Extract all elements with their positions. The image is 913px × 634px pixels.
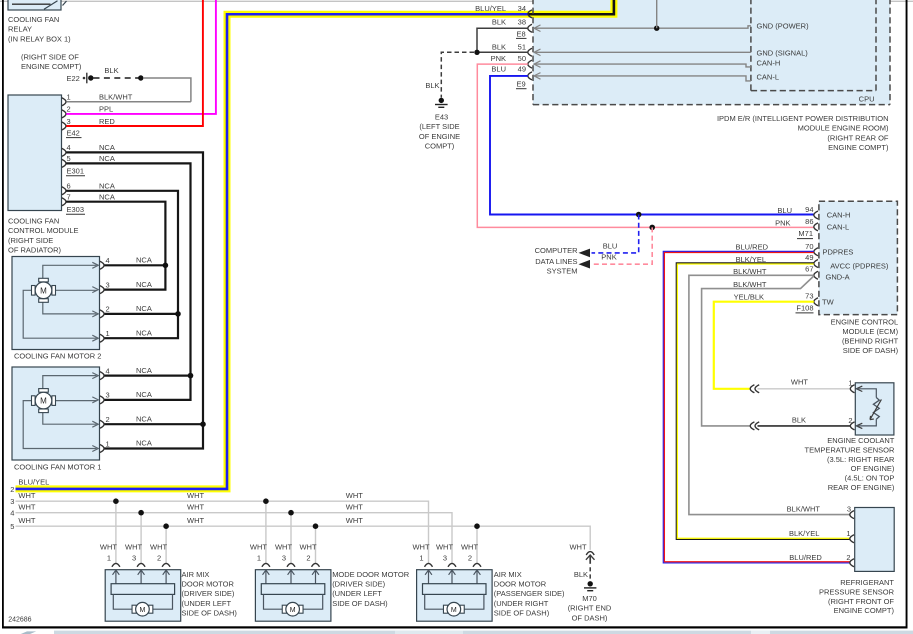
svg-text:(UNDER LEFT: (UNDER LEFT (332, 589, 382, 598)
svg-text:SIDE OF DASH): SIDE OF DASH) (332, 599, 388, 608)
wire PNK dashed to computer data lines (592, 227, 653, 264)
svg-text:PDPRES: PDPRES (823, 248, 854, 257)
junction dot motor2 pin4 (163, 263, 169, 269)
wire BLK/YEL pin49 to refrigerant sensor pin1 black line (676, 263, 850, 540)
svg-text:COOLING FAN MOTOR 1: COOLING FAN MOTOR 1 (14, 463, 101, 472)
wire BLU/YEL black core inside IPDM (528, 0, 614, 14)
wire BLK dashed to ground E43 (441, 52, 474, 97)
svg-text:(UNDER RIGHT: (UNDER RIGHT (494, 599, 549, 608)
svg-text:BLK: BLK (104, 66, 118, 75)
svg-text:BLK: BLK (492, 43, 506, 52)
svg-text:DOOR MOTOR: DOOR MOTOR (494, 580, 547, 589)
refrigerant sensor pin arcs (850, 511, 854, 567)
svg-text:NCA: NCA (136, 280, 152, 289)
COOLING FAN MOTOR 2 box (12, 257, 100, 350)
door motor AIR MIX pin arcs (425, 563, 482, 566)
svg-text:COOLING FAN: COOLING FAN (8, 15, 59, 24)
top gray edge line (0, 1, 913, 2)
IPDM pin arcs (528, 10, 532, 80)
door motor AIR MIX pin labels WHT (100, 542, 168, 551)
svg-text:3: 3 (67, 117, 71, 126)
svg-text:BLK/WHT: BLK/WHT (733, 267, 767, 276)
ECM box fill (819, 201, 898, 314)
wire BLK pin51 to splice (477, 51, 528, 53)
door motor AIR MIX potentiometer bar (111, 584, 175, 595)
svg-text:M: M (140, 607, 146, 614)
svg-text:CAN-H: CAN-H (827, 211, 851, 220)
svg-text:WHT: WHT (187, 502, 204, 511)
svg-text:NCA: NCA (136, 366, 152, 375)
junction dot on GND POWER wire (654, 26, 659, 31)
junction dot motor2 pin2 (175, 311, 181, 317)
svg-text:3: 3 (106, 391, 110, 400)
door motor AIR MIX box (105, 570, 181, 622)
ECM dashed border (819, 201, 898, 314)
svg-text:242686: 242686 (8, 616, 31, 623)
svg-text:BLK: BLK (425, 81, 439, 90)
svg-text:AVCC (PDPRES): AVCC (PDPRES) (830, 261, 889, 270)
svg-text:3: 3 (10, 497, 14, 506)
wire NCA pin6 to fan motor2 pins 2/1 (66, 191, 178, 338)
svg-text:ENGINE COMPT): ENGINE COMPT) (828, 143, 889, 152)
svg-text:WHT: WHT (125, 542, 142, 551)
relay label text (8, 15, 82, 71)
svg-text:WHT: WHT (346, 491, 363, 500)
svg-text:ENGINE COOLANT: ENGINE COOLANT (827, 436, 895, 445)
ECM wire labels (733, 206, 792, 302)
relay internal line (12, 3, 51, 5)
svg-text:CONTROL MODULE: CONTROL MODULE (8, 226, 79, 235)
svg-text:50: 50 (518, 54, 526, 63)
arrow to computer data lines BLU (579, 249, 591, 258)
wire labels at module pins (99, 93, 133, 202)
module label text (8, 217, 79, 255)
svg-text:CAN-H: CAN-H (757, 59, 781, 68)
svg-text:E42: E42 (67, 128, 80, 137)
svg-text:WHT: WHT (791, 378, 808, 387)
wire BLU/YEL blue core (16, 14, 530, 489)
svg-text:PNK: PNK (601, 253, 616, 262)
wire BLK solid to corner, down to pin 1 (143, 78, 191, 102)
coolant sensor pin arcs (850, 385, 854, 430)
door motor MODE DOOR MOTOR motor symbol (264, 594, 323, 616)
COOLING FAN MOTOR 1 internal wires (23, 373, 98, 452)
inline connector on M70 drop (586, 552, 594, 555)
COOLING FAN MOTOR 1 NCA labels (136, 366, 152, 448)
svg-text:M: M (451, 607, 457, 614)
svg-text:2: 2 (106, 415, 110, 424)
svg-text:2: 2 (157, 554, 161, 563)
svg-text:2: 2 (468, 554, 472, 563)
svg-text:2: 2 (106, 305, 110, 314)
svg-text:WHT: WHT (412, 542, 429, 551)
svg-text:4: 4 (106, 256, 110, 265)
svg-text:GND-A: GND-A (826, 272, 850, 281)
WHT labels on bus (18, 491, 363, 525)
door motor MODE DOOR MOTOR internal arrows (263, 570, 319, 584)
svg-text:WHT: WHT (18, 516, 35, 525)
svg-text:(IN RELAY BOX 1): (IN RELAY BOX 1) (8, 34, 71, 43)
svg-text:(UNDER LEFT: (UNDER LEFT (182, 599, 232, 608)
door motor AIR MIX internal arrows (425, 570, 480, 584)
IPDM label text (717, 114, 889, 152)
arrow to computer data lines PNK (579, 260, 591, 269)
svg-text:PNK: PNK (491, 54, 506, 63)
svg-text:(BEHIND RIGHT: (BEHIND RIGHT (842, 337, 899, 346)
door motor MODE DOOR MOTOR pin numbers 1 3 2 (257, 554, 311, 563)
wire WHT bus line 4 (16, 513, 453, 564)
svg-text:M: M (290, 607, 296, 614)
door motor MODE DOOR MOTOR pin arcs (262, 563, 320, 566)
wire BLK pin38 to splice (477, 28, 528, 52)
COOLING FAN MOTOR 1 pin numbers 4 3 2 1 (106, 366, 110, 448)
svg-text:NCA: NCA (136, 439, 152, 448)
wire BLU dashed to computer data lines (592, 215, 639, 253)
thermistor symbol (856, 389, 881, 426)
svg-text:F108: F108 (796, 304, 813, 313)
ground E43 label text (419, 113, 460, 151)
wire YEL/BLK pin73 to coolant sensor pin1 (714, 302, 814, 389)
module pin arcs (62, 98, 66, 206)
COOLING FAN MOTOR 1 motor symbol M (32, 389, 56, 413)
svg-text:70: 70 (805, 242, 813, 251)
svg-text:E22: E22 (67, 74, 80, 83)
COOLING FAN MOTOR 2 motor symbol M (32, 278, 56, 302)
svg-text:(RIGHT REAR OF: (RIGHT REAR OF (827, 133, 889, 142)
door motor AIR MIX label text (182, 570, 238, 618)
cooling fan control module box (8, 95, 62, 211)
COOLING FAN MOTOR 2 NCA labels (136, 256, 152, 338)
svg-text:1: 1 (419, 554, 423, 563)
svg-text:1: 1 (106, 439, 110, 448)
wire NCA pin7 to fan motor2 pins 4/3 (66, 202, 165, 290)
svg-text:WHT: WHT (346, 502, 363, 511)
relay K1 COOLING FAN RELAY box (clipped at top) (8, 0, 61, 10)
ground M70 symbol (584, 581, 596, 591)
svg-text:2: 2 (306, 554, 310, 563)
arrow up into M70 connector (586, 555, 595, 560)
door motor MODE DOOR MOTOR label text (332, 570, 410, 608)
svg-text:34: 34 (518, 4, 526, 13)
wire WHT drops to door motors (116, 501, 477, 563)
svg-text:AIR MIX: AIR MIX (182, 570, 210, 579)
svg-text:SIDE OF DASH): SIDE OF DASH) (843, 346, 899, 355)
svg-text:MODULE ENGINE ROOM): MODULE ENGINE ROOM) (798, 124, 889, 133)
svg-text:BLK: BLK (574, 570, 588, 579)
wire PNK pin50 to ECM pin86 (477, 64, 814, 227)
svg-text:COOLING FAN MOTOR 2: COOLING FAN MOTOR 2 (14, 351, 101, 360)
wire BLU pin49 to ECM pin94 (490, 76, 814, 215)
module pin numbers 1-7 (67, 93, 71, 202)
svg-text:4: 4 (67, 143, 71, 152)
svg-text:PPL: PPL (99, 105, 113, 114)
svg-text:ENGINE COMPT): ENGINE COMPT) (834, 606, 895, 615)
wire BLK to coolant sensor pin2 (758, 425, 851, 427)
svg-text:WHT: WHT (275, 542, 292, 551)
svg-text:(PASSENGER SIDE): (PASSENGER SIDE) (494, 589, 565, 598)
ground E43 symbol (435, 98, 448, 108)
wire BLK/WHT pin67 to refrigerant sensor pin3 (689, 275, 850, 514)
svg-text:YEL/BLK: YEL/BLK (734, 293, 764, 302)
svg-text:67: 67 (805, 264, 813, 273)
svg-text:ENGINE CONTROL: ENGINE CONTROL (831, 317, 899, 326)
svg-text:CAN-L: CAN-L (757, 72, 780, 81)
svg-text:OF ENGINE: OF ENGINE (419, 132, 460, 141)
svg-text:BLK: BLK (492, 18, 506, 27)
svg-text:GND (POWER): GND (POWER) (757, 22, 810, 31)
svg-text:3: 3 (132, 554, 136, 563)
svg-text:NCA: NCA (136, 256, 152, 265)
svg-text:NCA: NCA (136, 390, 152, 399)
connector E22 symbol (83, 73, 87, 84)
svg-text:WHT: WHT (436, 542, 453, 551)
svg-text:NCA: NCA (99, 182, 115, 191)
COOLING FAN MOTOR 2 internal wires (23, 262, 98, 341)
svg-text:IPDM E/R (INTELLIGENT POWER DI: IPDM E/R (INTELLIGENT POWER DISTRIBUTION (717, 114, 889, 123)
wire BLK/WHT second to coolant sensor pin2 (702, 276, 814, 426)
COOLING FAN MOTOR 2 pin arcs (100, 261, 104, 342)
svg-text:1: 1 (106, 329, 110, 338)
svg-text:WHT: WHT (187, 491, 204, 500)
svg-text:REFRIGERANT: REFRIGERANT (840, 578, 894, 587)
svg-text:WHT: WHT (250, 542, 267, 551)
svg-text:4: 4 (106, 366, 110, 375)
door motor MODE DOOR MOTOR potentiometer bar (261, 584, 325, 595)
CPU pin labels (757, 22, 810, 82)
door motor AIR MIX box (417, 570, 493, 622)
bottom taskbar strip (54, 631, 913, 634)
wire BLK/YEL yellow line (677, 264, 849, 538)
svg-text:BLK: BLK (792, 416, 806, 425)
svg-text:RELAY: RELAY (8, 25, 32, 34)
svg-text:(LEFT SIDE: (LEFT SIDE (419, 122, 459, 131)
IPDM pin wire labels (475, 4, 506, 74)
svg-text:BLU/RED: BLU/RED (735, 242, 768, 251)
diagram bottom border (2, 626, 908, 628)
door motor AIR MIX pin labels WHT (412, 542, 478, 551)
svg-text:AIR MIX: AIR MIX (494, 570, 522, 579)
svg-text:2: 2 (10, 485, 14, 494)
ECM internal pin labels (822, 211, 889, 307)
svg-text:5: 5 (10, 522, 14, 531)
svg-text:ENGINE COMPT): ENGINE COMPT) (21, 62, 82, 71)
wire WHT to coolant sensor pin1 (758, 388, 851, 390)
wire NCA pin5 to fan motor1 pins 4/3 (66, 163, 190, 400)
svg-text:1: 1 (846, 529, 850, 538)
svg-text:(RIGHT SIDE OF: (RIGHT SIDE OF (21, 53, 79, 62)
line numbers 3 4 5 (10, 497, 14, 531)
wire RED pin3 up to top edge (66, 0, 203, 126)
relay terminal tick (63, 1, 67, 6)
IPDM pin numbers (518, 4, 526, 74)
svg-text:E9: E9 (517, 80, 526, 89)
svg-text:4: 4 (10, 509, 14, 518)
relay switch blade (44, 1, 58, 9)
svg-text:3: 3 (106, 280, 110, 289)
svg-text:BLU: BLU (777, 206, 792, 215)
svg-text:(DRIVER SIDE): (DRIVER SIDE) (332, 580, 385, 589)
svg-text:BLU/YEL: BLU/YEL (18, 477, 49, 486)
svg-text:3: 3 (282, 554, 286, 563)
svg-text:(3.5L: RIGHT REAR: (3.5L: RIGHT REAR (827, 455, 895, 464)
junction dot PNK CAN-L (649, 225, 655, 231)
svg-text:1: 1 (107, 554, 111, 563)
svg-text:(RIGHT FRONT OF: (RIGHT FRONT OF (828, 597, 894, 606)
svg-text:WHT: WHT (569, 542, 586, 551)
svg-text:TW: TW (822, 298, 835, 307)
branch fan motor1 pin2 (104, 423, 203, 425)
junction dot BLU CAN-H (636, 212, 642, 218)
svg-text:WHT: WHT (299, 542, 316, 551)
svg-text:E301: E301 (67, 167, 85, 176)
svg-text:BLK/WHT: BLK/WHT (99, 93, 133, 102)
svg-text:WHT: WHT (461, 542, 478, 551)
branch fan motor2 pin4 (104, 264, 165, 266)
svg-text:DATA LINES: DATA LINES (535, 257, 577, 266)
diagram left border (2, 0, 4, 629)
svg-text:(RIGHT END: (RIGHT END (568, 604, 612, 613)
svg-text:NCA: NCA (99, 154, 115, 163)
junction dots on WHT bus (113, 498, 480, 529)
junction dot motor1 pin4 (188, 373, 194, 379)
svg-text:WHT: WHT (18, 491, 35, 500)
svg-text:PRESSURE SENSOR: PRESSURE SENSOR (819, 587, 895, 596)
svg-text:49: 49 (805, 253, 813, 262)
wire BLK/WHT pin1 (66, 101, 191, 103)
svg-text:OF ENGINE): OF ENGINE) (851, 464, 895, 473)
svg-text:COOLING FAN: COOLING FAN (8, 217, 59, 226)
svg-text:73: 73 (805, 292, 813, 301)
svg-text:51: 51 (518, 43, 526, 52)
svg-text:(DRIVER SIDE): (DRIVER SIDE) (182, 589, 235, 598)
branch fan motor2 pin2 (104, 313, 178, 315)
svg-text:PNK: PNK (775, 218, 790, 227)
door motor MODE DOOR MOTOR pin labels WHT (250, 542, 317, 551)
svg-text:86: 86 (805, 217, 813, 226)
ECM pin arcs (814, 211, 818, 306)
door motor AIR MIX motor symbol (425, 594, 484, 616)
svg-text:NCA: NCA (99, 193, 115, 202)
svg-text:SYSTEM: SYSTEM (547, 266, 578, 275)
svg-text:DOOR MOTOR: DOOR MOTOR (182, 580, 235, 589)
svg-text:M: M (40, 397, 47, 406)
coolant sensor label text (805, 436, 895, 492)
internal vertical to top at x657 (656, 0, 658, 28)
svg-text:WHT: WHT (100, 542, 117, 551)
svg-text:6: 6 (67, 182, 71, 191)
svg-text:MODULE (ECM): MODULE (ECM) (842, 327, 898, 336)
svg-text:E303: E303 (67, 205, 85, 214)
svg-text:WHT: WHT (346, 516, 363, 525)
IPDM internal wire pin49 CAN-L (534, 76, 751, 81)
svg-text:NCA: NCA (136, 328, 152, 337)
svg-text:GND (SIGNAL): GND (SIGNAL) (757, 48, 809, 57)
svg-text:E8: E8 (517, 29, 526, 38)
svg-text:REAR OF ENGINE): REAR OF ENGINE) (828, 483, 895, 492)
junction dot BLK splice (474, 50, 479, 55)
svg-text:BLU/RED: BLU/RED (789, 553, 822, 562)
svg-text:WHT: WHT (187, 516, 204, 525)
IPDM E/R dashed border (533, 0, 890, 105)
wire WHT bus line 3 (16, 501, 429, 563)
COOLING FAN MOTOR 2 pin numbers 4 3 2 1 (106, 256, 110, 338)
svg-text:RED: RED (99, 117, 115, 126)
inline connector on WHT coolant wire (750, 385, 759, 393)
svg-text:1: 1 (67, 93, 71, 102)
ground M70 label text (568, 594, 612, 622)
svg-text:5: 5 (67, 154, 71, 163)
svg-text:BLU: BLU (491, 65, 506, 74)
svg-text:OF RADIATOR): OF RADIATOR) (8, 246, 62, 255)
junction dot mid BLK wire (138, 75, 143, 80)
svg-text:CPU: CPU (859, 94, 875, 103)
door motor AIR MIX potentiometer bar (423, 584, 487, 595)
wire BLU/RED pin70 to refrigerant sensor pin2 blue line (663, 251, 850, 563)
svg-text:(RIGHT SIDE: (RIGHT SIDE (8, 236, 53, 245)
COOLING FAN MOTOR 1 pin arcs (100, 372, 104, 453)
branch fan motor1 pin4 (104, 375, 190, 377)
svg-text:E43: E43 (435, 113, 448, 122)
svg-text:M70: M70 (582, 594, 597, 603)
door motor MODE DOOR MOTOR box (255, 570, 331, 622)
door motor AIR MIX pin numbers 1 3 2 (419, 554, 472, 563)
coolant sensor internal arrows (856, 386, 862, 429)
svg-text:WHT: WHT (150, 542, 167, 551)
wire BLU/RED red line (664, 253, 849, 562)
wire BLK dashed from E22 (94, 77, 140, 79)
svg-text:1: 1 (257, 554, 261, 563)
CPU dashed box inside IPDM (751, 0, 876, 91)
COOLING FAN MOTOR 1 box (12, 367, 100, 460)
svg-text:38: 38 (518, 18, 526, 27)
IPDM E/R box fill (533, 0, 890, 105)
door motor AIR MIX pin numbers 1 3 2 (107, 554, 161, 563)
IPDM internal wire pin38 GND POWER (534, 26, 751, 28)
svg-text:49: 49 (518, 65, 526, 74)
svg-text:BLU: BLU (603, 241, 618, 250)
svg-text:NCA: NCA (136, 414, 152, 423)
IPDM internal wire pin50 CAN-H (534, 64, 751, 67)
inline connector on BLK coolant wire (750, 422, 759, 430)
svg-text:NCA: NCA (136, 304, 152, 313)
wire PPL pin2 up to top edge (66, 0, 216, 114)
junction dot motor1 pin2 (200, 421, 206, 427)
wire WHT bus line 5 (16, 526, 591, 550)
door motor AIR MIX motor symbol (113, 594, 172, 616)
svg-text:94: 94 (805, 205, 813, 214)
svg-text:M71: M71 (798, 229, 813, 238)
svg-text:BLK/YEL: BLK/YEL (789, 529, 819, 538)
computer data lines system text (535, 246, 579, 275)
coolant sensor box (855, 383, 894, 435)
ECM pin numbers (805, 205, 813, 301)
svg-text:OF DASH): OF DASH) (572, 613, 608, 622)
refrigerant sensor box (855, 508, 895, 572)
diagram right border (906, 0, 908, 629)
wire BLU/YEL trunk yellow band (16, 0, 614, 489)
svg-text:(4.5L: ON TOP: (4.5L: ON TOP (845, 474, 895, 483)
svg-text:CAN-L: CAN-L (827, 222, 850, 231)
refrigerant sensor label text (819, 578, 895, 615)
svg-text:2: 2 (67, 105, 71, 114)
wire NCA pin4 to fan motor1 pins 2/1 (66, 152, 203, 448)
svg-text:WHT: WHT (18, 502, 35, 511)
ECM label text (831, 317, 899, 355)
svg-text:TEMPERATURE SENSOR: TEMPERATURE SENSOR (805, 445, 895, 454)
svg-text:BLU/YEL: BLU/YEL (475, 4, 506, 13)
svg-text:SIDE OF DASH): SIDE OF DASH) (182, 609, 238, 618)
svg-text:MODE DOOR MOTOR: MODE DOOR MOTOR (332, 570, 410, 579)
